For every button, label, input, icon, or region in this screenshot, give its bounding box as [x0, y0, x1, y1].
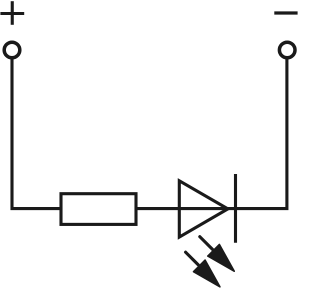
- wire resistor to LED and on to right corner: [136, 59, 287, 209]
- LED D1 cathode bar: [234, 174, 237, 243]
- plus terminal marking: [0, 1, 24, 25]
- left terminal contact: [4, 42, 20, 58]
- LED light emission arrow upper-right: [200, 237, 234, 272]
- resistor R1: [61, 194, 136, 225]
- right terminal contact: [279, 42, 295, 58]
- minus terminal marking: [274, 11, 297, 14]
- wire left vertical and horizontal to resistor: [12, 59, 62, 209]
- LED D1 anode triangle: [179, 181, 228, 237]
- LED light emission arrow lower-left: [186, 252, 220, 287]
